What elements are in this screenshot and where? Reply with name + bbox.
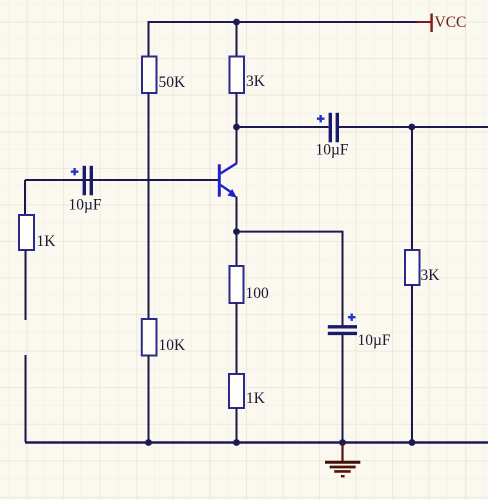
resistor R 10K — [142, 319, 157, 356]
wire: bypass cap to ground rail — [342, 335, 344, 443]
capacitor C 10uF input: left plate — [83, 166, 86, 196]
junction dot: bias column at ground rail — [145, 439, 152, 446]
capacitor C 10uF bypass: bottom plate — [328, 332, 357, 335]
wire: collector column lower (R 3K to transistor) — [236, 93, 238, 164]
capacitor C 10uF input: right plate — [90, 166, 93, 196]
wire: bypass branch vertical to cap — [342, 232, 344, 326]
polarity plus of bypass cap — [348, 314, 356, 321]
junction dot: emitter column at ground rail — [233, 439, 240, 446]
wire: emitter column (transistor to emitter node) — [236, 197, 238, 233]
junction dot: output node at load branch — [408, 124, 415, 131]
junction dot: emitter node — [233, 228, 240, 235]
junction dot: load column at ground rail — [409, 439, 416, 446]
svg-text:50K: 50K — [159, 74, 187, 91]
wire: input signal line (to base) — [25, 179, 219, 181]
wire: left bias column middle (R 50K to R 10K) — [148, 93, 150, 320]
resistor R 100 — [230, 266, 244, 303]
wire: output line right of C out — [339, 126, 488, 128]
svg-text:3K: 3K — [246, 73, 266, 90]
wire: load column lower (R 3K to ground rail) — [411, 285, 413, 443]
VCC power-port bar — [430, 14, 432, 33]
svg-text:10µF: 10µF — [316, 142, 349, 159]
ground symbol nub — [341, 475, 345, 477]
resistor R 1K (emitter) — [229, 374, 244, 408]
wire: left bias column lower (R 10K to ground rail) — [148, 356, 150, 443]
svg-text:1K: 1K — [246, 390, 266, 407]
capacitor C 10uF output: right plate — [336, 113, 339, 143]
resistor R 3K (load) — [405, 250, 420, 285]
transistor Q1 emitter arrowhead — [228, 189, 237, 198]
svg-text:3K: 3K — [421, 267, 441, 284]
junction dot: collector column at VCC rail — [233, 19, 240, 26]
transistor Q1 emitter stroke — [221, 185, 232, 193]
wire: output line left of C out — [237, 126, 329, 128]
transistor Q1 collector stroke — [221, 163, 237, 173]
svg-text:10µF: 10µF — [358, 332, 391, 349]
junction dot: bypass column at ground rail — [339, 439, 346, 446]
wire: load column upper (output to R 3K) — [411, 127, 413, 250]
polarity plus of input cap — [71, 168, 79, 175]
wire: VCC power-port stem (maroon) — [417, 21, 431, 23]
wire: input column upper (base line down to R 1K) — [24, 180, 26, 215]
wire: input column below R 1K (open stub) — [25, 250, 27, 320]
resistor R 3K (collector load) — [230, 57, 245, 94]
svg-text:10µF: 10µF — [69, 197, 102, 214]
wire: emitter bypass branch horizontal — [237, 231, 344, 233]
wire: input column lower segment to ground rail — [25, 355, 27, 442]
ground symbol bar 3 — [334, 470, 351, 473]
resistor R 50K — [142, 57, 157, 94]
svg-text:1K: 1K — [37, 233, 57, 250]
wire: R 1K to ground rail — [236, 408, 238, 443]
wire: top VCC rail — [149, 21, 418, 23]
transistor Q1 base bar — [218, 164, 221, 196]
ground symbol stem — [341, 443, 343, 462]
svg-text:100: 100 — [246, 285, 270, 302]
wire: bottom ground rail — [25, 441, 488, 443]
wire: left bias column upper (rail to R 50K) — [148, 21, 150, 57]
wire: collector column upper (rail to R 3K) — [236, 21, 238, 57]
capacitor C 10uF output: left plate — [329, 113, 332, 143]
ground symbol bar 2 — [330, 466, 356, 469]
wire: R 100 to R 1K — [236, 303, 238, 374]
junction dot: collector / output node — [233, 124, 240, 131]
svg-text:10K: 10K — [159, 337, 187, 354]
capacitor C 10uF bypass: top plate — [328, 325, 357, 328]
wire: emitter node to R 100 — [236, 232, 238, 266]
polarity plus of output cap — [317, 115, 325, 122]
resistor R 1K (source) — [19, 215, 34, 250]
svg-text:VCC: VCC — [435, 14, 467, 31]
ground symbol bar 1 — [325, 461, 360, 464]
